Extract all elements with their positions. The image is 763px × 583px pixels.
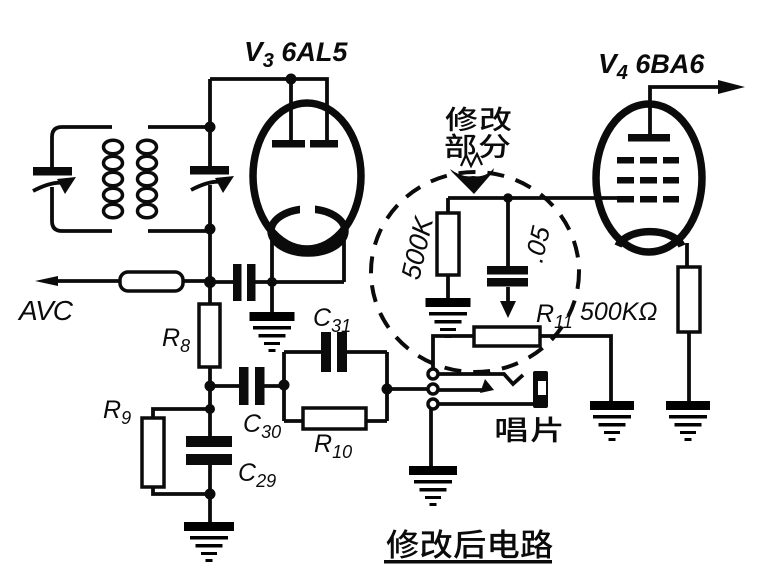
IF transformer primary winding L1 bbox=[104, 140, 123, 218]
phono jack bbox=[533, 371, 548, 408]
switch blade from top contact bbox=[438, 374, 523, 384]
V4 grid row 3 (control grid) bbox=[617, 196, 679, 203]
V4 grid row 2 bbox=[617, 177, 679, 184]
wire: main detector vertical bus bbox=[208, 79, 212, 304]
V4 cathode bbox=[618, 232, 682, 246]
tube V4 6BA6 envelope bbox=[596, 104, 702, 252]
arrow into modification area bbox=[450, 154, 494, 194]
wire: V4 cathode lead bbox=[685, 243, 689, 267]
capacitor .05 bbox=[487, 198, 528, 318]
capacitor (detector coupling) bbox=[210, 264, 256, 301]
node: R10/C31 right junction bbox=[382, 384, 393, 395]
secondary tuning trimmer capacitor bbox=[190, 166, 234, 193]
resistor R8 bbox=[199, 304, 220, 367]
wire: R11 right lead to ground bbox=[540, 336, 611, 401]
node: V3 left anode junction bbox=[286, 74, 297, 85]
wire: modification top wire to V4 grid bbox=[448, 196, 620, 200]
IF transformer secondary loop wire bbox=[148, 127, 210, 231]
wire: V3 anode top wire bbox=[210, 79, 327, 140]
potentiometer R11 bbox=[474, 327, 540, 346]
resistor R10 bbox=[303, 408, 366, 429]
capacitor C31 bbox=[321, 332, 347, 372]
resistor R9 bbox=[142, 418, 164, 487]
node: C30/C31 left junction bbox=[279, 380, 290, 391]
wire: C29 to ground bbox=[208, 465, 212, 522]
label 部分 bbox=[446, 133, 510, 158]
IF transformer T primary loop wire bbox=[52, 127, 112, 231]
node: cathode-ground junction bbox=[267, 277, 277, 287]
svg-text:500KΩ: 500KΩ bbox=[580, 298, 657, 326]
svg-text:AVC: AVC bbox=[17, 295, 74, 326]
svg-text:V4 6BA6: V4 6BA6 bbox=[598, 48, 705, 84]
primary tuning trimmer capacitor bbox=[33, 167, 76, 194]
capacitor C30 bbox=[210, 367, 284, 405]
resistor (AVC decoupling) bbox=[120, 272, 183, 291]
node: 500K / .05 junction bbox=[503, 193, 513, 203]
caption 修改后电路 bbox=[387, 529, 553, 558]
dashed circle (modification area) bbox=[371, 172, 579, 372]
node: secondary top junction bbox=[205, 122, 216, 133]
wire: R9 top branch bbox=[153, 409, 210, 418]
switch wiper arm with arrowhead bbox=[438, 379, 494, 393]
ground under 500K bbox=[426, 298, 471, 338]
node: secondary bottom junction bbox=[205, 224, 216, 235]
node: R9 branch junction bbox=[205, 404, 215, 414]
V3 cathode bbox=[271, 204, 345, 253]
node: R9/C29 bottom junction bbox=[205, 489, 216, 500]
V3 diode anode plate (left) with lead bbox=[272, 79, 305, 148]
node: detector output / AVC junction bbox=[204, 276, 216, 288]
wire: bottom contact to ground bbox=[429, 409, 433, 466]
ground below switch bbox=[409, 466, 457, 506]
wire: below R8 bbox=[208, 367, 212, 436]
svg-text:V3 6AL5: V3 6AL5 bbox=[244, 36, 348, 72]
wire: R11 left lead to switch bbox=[433, 336, 474, 369]
wire: C31/R10 parallel loop bbox=[284, 352, 387, 421]
wire: cathode resistor to ground bbox=[687, 332, 691, 401]
V3 diode anode plate (right) bbox=[310, 140, 338, 148]
wire: network output to switch bbox=[387, 387, 428, 391]
switch contact bottom bbox=[428, 399, 438, 409]
caption underline bbox=[384, 560, 552, 564]
V4 cathode resistor bbox=[678, 267, 700, 332]
tube V3 6AL5 envelope bbox=[253, 103, 361, 249]
IF transformer secondary winding L2 bbox=[138, 140, 157, 218]
ground under V3 cathode bbox=[250, 282, 295, 352]
wire: R9 bottom branch bbox=[153, 487, 210, 494]
label 修改 bbox=[446, 107, 512, 132]
switch contact middle bbox=[428, 384, 438, 394]
wire: V3 cathode legs and bus bbox=[255, 233, 344, 282]
resistor 500K bbox=[437, 198, 459, 298]
wire: AVC line with arrowhead bbox=[35, 276, 210, 286]
wire: bottom contact to phono jack bbox=[438, 402, 534, 406]
capacitor C29 bbox=[186, 436, 232, 465]
switch contact top bbox=[428, 369, 438, 379]
ground under C29 bbox=[184, 522, 234, 562]
label 唱片 bbox=[497, 416, 562, 442]
V4 plate with output lead and arrow bbox=[628, 80, 745, 142]
node: R8/C30 junction bbox=[205, 381, 216, 392]
ground at R11 right bbox=[590, 401, 634, 441]
ground under V4 cathode resistor bbox=[666, 401, 710, 441]
V4 grid row 1 bbox=[617, 157, 679, 164]
